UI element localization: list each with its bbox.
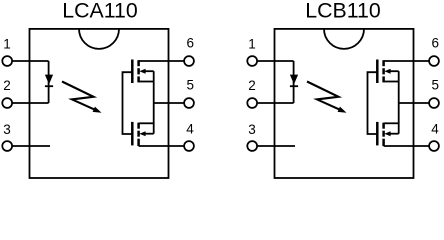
pin 1 terminal circle <box>247 56 257 66</box>
wire Q3 source lead <box>384 81 399 83</box>
wire Q3 drain to pin 6 <box>384 60 430 62</box>
pin 2 terminal circle <box>2 98 12 108</box>
svg-text:4: 4 <box>186 122 194 137</box>
svg-text:2: 2 <box>3 78 11 93</box>
pin 4 terminal circle <box>429 141 439 151</box>
wire LED anode drop <box>48 61 50 103</box>
transistor Q1 channel body segment <box>137 68 140 74</box>
transistor Q4 channel drain segment <box>382 139 385 146</box>
transistor Q3 channel body segment <box>382 68 385 74</box>
wire Q4 drain to pin 4 <box>384 145 430 147</box>
transistor Q1 channel drain segment <box>137 60 140 66</box>
light emission arrow (optical coupling) <box>307 82 339 110</box>
pin-1 notch <box>324 29 364 49</box>
wire pin1 to LED anode <box>257 60 293 62</box>
transistor Q3 body arrow tail <box>390 70 399 72</box>
transistor Q2 body arrow tail <box>145 133 154 135</box>
wire source bus Q1-Q2 <box>153 71 155 134</box>
transistor Q1 gate bar <box>131 60 134 84</box>
wire pin2 to LED cathode <box>12 102 48 104</box>
svg-text:6: 6 <box>187 36 195 51</box>
wire Q2 drain to pin 4 <box>139 145 185 147</box>
transistor Q3 channel source segment <box>382 76 385 82</box>
LED D2 triangle <box>290 75 298 85</box>
transistor Q3 body arrow head <box>384 69 390 74</box>
transistor Q4 channel body segment <box>382 131 385 137</box>
gate bus wire connecting Q3,Q4 gates <box>368 72 378 134</box>
wire pin3 stub <box>257 145 295 147</box>
light emission arrow (optical coupling) <box>62 82 94 110</box>
pin-1 notch <box>79 29 119 49</box>
pin 2 terminal circle <box>247 98 257 108</box>
light arrow head <box>338 107 347 113</box>
svg-text:2: 2 <box>248 78 256 93</box>
svg-text:3: 3 <box>248 122 256 137</box>
svg-text:5: 5 <box>187 78 195 93</box>
package outline U2 (DIP-6 body) <box>275 29 414 178</box>
wire Q1 source lead <box>139 81 154 83</box>
transistor Q2 gate bar <box>131 122 134 145</box>
wire Q2 source lead <box>139 122 154 124</box>
pin 1 terminal circle <box>2 56 12 66</box>
LED D1 cathode bar <box>45 85 53 87</box>
transistor Q2 channel drain segment <box>137 139 140 146</box>
wire LED anode drop <box>293 61 295 103</box>
svg-text:6: 6 <box>432 36 440 51</box>
transistor Q1 body arrow head <box>139 69 145 74</box>
svg-text:3: 3 <box>3 122 11 137</box>
wire source bus to pin 5 <box>399 102 430 104</box>
transistor Q4 body arrow head <box>384 131 390 136</box>
pin 3 terminal circle <box>247 141 257 151</box>
transistor Q2 body arrow head <box>139 131 145 136</box>
package outline U1 (DIP-6 body) <box>30 29 169 178</box>
transistor Q1 channel source segment <box>137 76 140 82</box>
wire pin2 to LED cathode <box>257 102 293 104</box>
wire source bus Q3-Q4 <box>398 71 400 134</box>
wire source bus to pin 5 <box>154 102 185 104</box>
svg-text:LCA110: LCA110 <box>62 0 138 23</box>
svg-text:4: 4 <box>431 122 439 137</box>
LED D1 triangle <box>45 75 53 85</box>
svg-text:1: 1 <box>248 37 256 52</box>
transistor Q3 gate bar <box>376 60 379 84</box>
transistor Q4 channel source segment <box>382 123 385 129</box>
transistor Q2 channel source segment <box>137 123 140 129</box>
wire pin1 to LED anode <box>12 60 48 62</box>
gate bus wire connecting Q1,Q2 gates <box>123 72 133 134</box>
light arrow head <box>93 107 102 113</box>
transistor Q4 gate bar <box>376 122 379 145</box>
pin 4 terminal circle <box>184 141 194 151</box>
svg-text:1: 1 <box>3 37 11 52</box>
LED D2 cathode bar <box>290 85 298 87</box>
transistor Q1 body arrow tail <box>145 70 154 72</box>
wire Q1 drain to pin 6 <box>139 60 185 62</box>
transistor Q2 channel body segment <box>137 131 140 137</box>
pin 6 terminal circle <box>429 56 439 66</box>
wire pin3 stub <box>12 145 50 147</box>
pin 6 terminal circle <box>184 56 194 66</box>
pin 3 terminal circle <box>2 141 12 151</box>
pin 5 terminal circle <box>429 98 439 108</box>
svg-text:5: 5 <box>432 78 440 93</box>
svg-text:LCB110: LCB110 <box>305 0 381 23</box>
transistor Q3 channel drain segment <box>382 60 385 66</box>
transistor Q4 body arrow tail <box>390 133 399 135</box>
pin 5 terminal circle <box>184 98 194 108</box>
wire Q4 source lead <box>384 122 399 124</box>
